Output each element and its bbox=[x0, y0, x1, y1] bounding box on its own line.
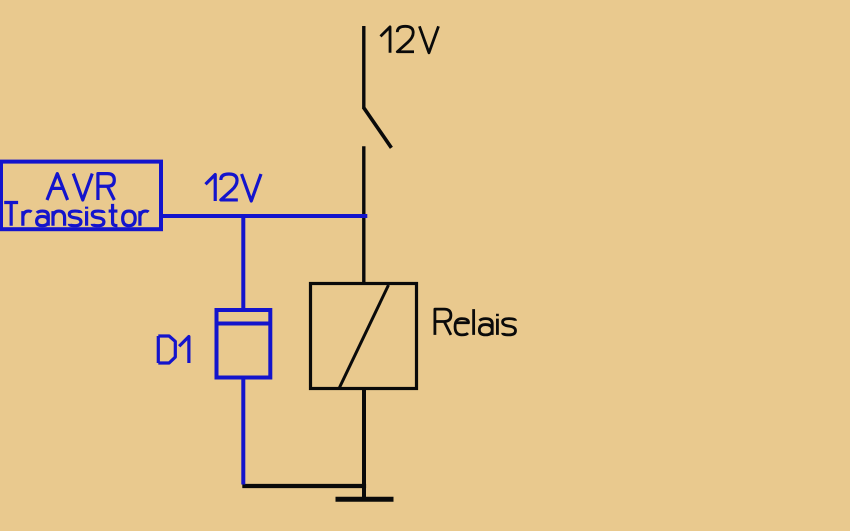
wire: AVR box output to junction/relay node bbox=[161, 214, 367, 218]
label: 12V supply (black) bbox=[381, 26, 439, 53]
label: D1 bbox=[158, 336, 189, 363]
wire: D1 cathode down to bottom return bbox=[241, 377, 245, 485]
relay K1 coil box bbox=[311, 284, 417, 389]
label: AVR bbox=[47, 174, 114, 200]
wire: bottom horizontal (D1 return to relay/ground node) bbox=[242, 484, 366, 488]
wire: switch to relay coil top bbox=[362, 146, 365, 285]
relay K1 coil diagonal bbox=[340, 285, 389, 388]
AVR transistor driver box bbox=[1, 162, 161, 230]
switch S1 (open contact) bbox=[364, 108, 392, 148]
wire: relay coil bottom to ground bbox=[362, 388, 366, 499]
wire: junction down to D1 anode bbox=[241, 216, 245, 309]
wire: 12V supply down to switch bbox=[362, 26, 365, 109]
label: Relais bbox=[435, 309, 516, 335]
diode D1 cathode bar bbox=[217, 322, 271, 326]
label: 12V rail (blue) bbox=[206, 174, 262, 201]
diode D1 body bbox=[217, 310, 271, 378]
label: Transistor bbox=[4, 203, 148, 226]
ground symbol bbox=[336, 497, 394, 502]
